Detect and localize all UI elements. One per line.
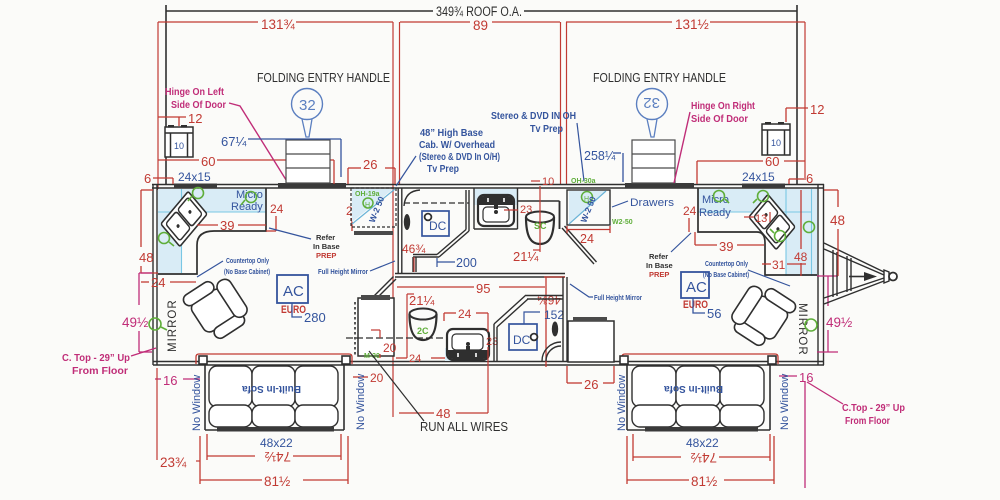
dim 20 upper: [371, 330, 380, 358]
svg-text:46¾: 46¾: [402, 242, 426, 256]
angled mirror panel left: [365, 277, 397, 309]
dim 81 1/2 left: [200, 436, 348, 484]
red extension verticals: [158, 22, 805, 417]
mirror door diagonal right of toilet: [562, 226, 597, 264]
svg-text:From Floor: From Floor: [845, 416, 890, 427]
svg-text:32: 32: [643, 94, 660, 111]
svg-text:C. Top - 29” Up: C. Top - 29” Up: [62, 353, 130, 364]
dim 48 bottom bath: [399, 412, 488, 414]
svg-text:C.Top - 29” Up: C.Top - 29” Up: [842, 403, 905, 414]
mirror text left wall: [167, 299, 179, 352]
outlet left wall lower: [149, 318, 161, 330]
svg-text:RUN ALL WIRES: RUN ALL WIRES: [420, 420, 508, 434]
dim 31 right: [762, 263, 806, 265]
svg-text:16: 16: [163, 373, 177, 388]
svg-text:No Window: No Window: [355, 374, 367, 430]
svg-text:Side Of Door: Side Of Door: [691, 114, 748, 125]
svg-text:Built-In Sofa: Built-In Sofa: [242, 383, 301, 394]
door threshold right: [625, 183, 694, 188]
svg-text:PREP: PREP: [649, 270, 669, 279]
svg-text:12: 12: [810, 102, 824, 117]
sofa left cushions: [209, 366, 338, 427]
svg-text:48: 48: [139, 250, 153, 265]
dim 23 3/4 left: [156, 368, 158, 460]
dim 152 leader: [524, 312, 540, 324]
dim 46 3/4 bottom bath (rotated): [537, 293, 561, 307]
svg-text:24: 24: [458, 307, 472, 321]
hinge leader right: [674, 112, 690, 183]
svg-text:Tv Prep: Tv Prep: [427, 164, 459, 175]
dim 60 right: [697, 161, 805, 184]
svg-text:48: 48: [794, 250, 808, 264]
svg-text:AC: AC: [283, 283, 304, 300]
svg-text:152: 152: [544, 308, 564, 322]
red overall dim line 131 3/4: [158, 21, 805, 23]
bottom bath top wall: [395, 274, 565, 278]
svg-text:95: 95: [476, 281, 490, 296]
dim 200 leader: [436, 258, 438, 267]
dim 24 counter bottom left: [141, 281, 196, 283]
dim 13 right sink: [744, 216, 754, 218]
svg-text:In Base: In Base: [313, 242, 340, 251]
svg-text:No Window: No Window: [616, 375, 628, 431]
svg-text:MIRROR: MIRROR: [167, 299, 179, 352]
mirror text right wall: [796, 303, 808, 356]
svg-text:60: 60: [765, 154, 779, 169]
overhead dashed line top bath: [404, 202, 469, 204]
sofa right slideout: [620, 356, 776, 430]
svg-text:Hinge On Left: Hinge On Left: [165, 87, 225, 98]
hitch coupler: [884, 270, 889, 283]
dim 48 right counter: [800, 190, 802, 276]
dim 20 lower: [353, 376, 368, 378]
no window labels left sofa: [191, 375, 203, 431]
DC room faucet: [552, 322, 558, 337]
svg-text:24x15: 24x15: [178, 170, 211, 184]
svg-text:48: 48: [830, 213, 845, 228]
hitch arrow: [849, 276, 864, 278]
hinge leader left: [229, 103, 288, 183]
svg-text:39: 39: [719, 239, 733, 254]
svg-text:In Base: In Base: [646, 261, 673, 270]
top bath sink counter: [474, 189, 518, 205]
svg-text:(No Base Cabinet): (No Base Cabinet): [703, 270, 749, 279]
svg-text:24: 24: [580, 232, 594, 246]
svg-text:EURO: EURO: [683, 299, 708, 311]
svg-text:49½: 49½: [826, 315, 852, 330]
svg-text:23¾: 23¾: [160, 455, 187, 470]
window 24x15 left: [174, 184, 217, 189]
svg-text:21¼: 21¼: [409, 293, 434, 308]
left kitchen counter edge: [158, 188, 266, 274]
svg-text:131½: 131½: [675, 17, 709, 32]
dim 95: [397, 277, 546, 367]
sofa right cushions: [632, 366, 764, 427]
svg-text:131¾: 131¾: [261, 17, 296, 32]
outlets right wall: [804, 222, 815, 233]
svg-text:31: 31: [772, 258, 786, 272]
left corner sink: [161, 191, 207, 246]
svg-text:Hinge On Right: Hinge On Right: [691, 101, 756, 112]
svg-text:PREP: PREP: [316, 251, 336, 260]
dim 49 1/2 left: [139, 273, 152, 352]
dim 74 1/2 left: [207, 434, 341, 460]
svg-text:48x22: 48x22: [260, 436, 293, 450]
svg-text:(No Base Cabinet): (No Base Cabinet): [224, 267, 270, 276]
toilet SC: [526, 212, 554, 223]
svg-text:48: 48: [436, 406, 450, 421]
left kitchen counter fill: [158, 189, 266, 273]
svg-text:Refer: Refer: [649, 252, 668, 261]
svg-text:258¼: 258¼: [584, 149, 616, 163]
dim 24 bottom bath sink top: [444, 313, 488, 321]
DC closet box top bath: [422, 211, 449, 236]
dim 39 left: [197, 224, 266, 226]
shower faucet top bath: [404, 214, 410, 230]
svg-text:81½: 81½: [691, 474, 717, 489]
trailer hitch a-frame: [824, 243, 884, 304]
svg-text:12: 12: [188, 111, 202, 126]
svg-text:49½: 49½: [122, 315, 148, 330]
built-in sofa label left: [242, 383, 301, 394]
svg-text:H: H: [365, 202, 370, 209]
svg-text:From Floor: From Floor: [72, 366, 128, 377]
no window labels right sofa: [616, 375, 628, 431]
svg-text:Refer: Refer: [316, 233, 335, 242]
svg-text:280: 280: [304, 310, 326, 325]
sofa right slideout red outline: [622, 354, 778, 364]
right kitchen counter edge: [698, 188, 817, 275]
DC closet box bottom: [509, 324, 537, 350]
dim 74 1/2 right: [633, 434, 770, 461]
svg-text:67¼: 67¼: [221, 134, 246, 149]
cabinet 10 left: [165, 127, 193, 157]
svg-text:74½: 74½: [265, 449, 291, 464]
svg-text:81½: 81½: [264, 474, 290, 489]
svg-text:6: 6: [806, 171, 813, 186]
svg-text:Stereo & DVD IN OH: Stereo & DVD IN OH: [491, 111, 576, 122]
svg-text:10: 10: [174, 141, 184, 151]
toilet back wall: [559, 201, 561, 229]
svg-text:56: 56: [707, 306, 721, 321]
dashed overhead line bottom bath: [346, 337, 452, 339]
DC room shower curve: [546, 346, 561, 361]
svg-text:48” High Base: 48” High Base: [420, 128, 483, 139]
svg-text:Cab. W/ Overhead: Cab. W/ Overhead: [419, 140, 495, 151]
svg-text:48x22: 48x22: [686, 436, 719, 450]
svg-text:74½: 74½: [691, 450, 717, 465]
svg-text:Micro: Micro: [236, 189, 263, 201]
entry step right: [632, 140, 675, 183]
DC room walls bottom bath: [494, 295, 563, 361]
svg-text:FOLDING ENTRY HANDLE: FOLDING ENTRY HANDLE: [593, 70, 726, 85]
bottom bath sink cyan pad: [445, 348, 488, 361]
sofa left slideout: [199, 356, 350, 430]
svg-text:20: 20: [383, 341, 397, 355]
door tag circle 32 left: [292, 89, 323, 120]
dim 49 1/2 right: [817, 276, 838, 352]
svg-text:No Window: No Window: [779, 374, 791, 430]
entry step left: [286, 140, 330, 183]
door tag circle 32 right (rotated): [637, 89, 668, 120]
right wall: [818, 184, 824, 365]
svg-text:200: 200: [456, 256, 477, 270]
svg-text:AC: AC: [686, 279, 707, 296]
svg-text:24x15: 24x15: [742, 170, 775, 184]
svg-text:2C: 2C: [417, 326, 429, 336]
center-right dividing wall: [563, 277, 567, 361]
roof O.A. dimension line: [166, 5, 797, 184]
built-in sofa label right: [664, 383, 723, 394]
svg-text:(Stereo & DVD In O/H): (Stereo & DVD In O/H): [419, 152, 500, 163]
dim 23 top bath: [504, 209, 518, 211]
svg-text:21¼: 21¼: [513, 249, 538, 264]
svg-text:Ready: Ready: [699, 207, 731, 219]
svg-text:89: 89: [473, 18, 488, 33]
svg-text:26: 26: [584, 377, 598, 392]
outlets right kitchen: [714, 191, 786, 242]
AC unit right: [681, 272, 709, 298]
svg-text:10: 10: [542, 176, 554, 188]
sofa left slideout red outline: [196, 354, 352, 364]
svg-text:Built-In Sofa: Built-In Sofa: [664, 383, 723, 394]
dim 6 right: [789, 178, 804, 180]
dim 10 top bath: [531, 180, 540, 182]
top bath shower walls: [413, 190, 469, 272]
dim 26 left cab: [348, 168, 395, 184]
svg-text:349¾ ROOF O.A.: 349¾ ROOF O.A.: [436, 4, 522, 19]
svg-text:24: 24: [151, 275, 165, 290]
bottom wall: [153, 362, 824, 366]
svg-text:Side Of Door: Side Of Door: [171, 100, 226, 111]
svg-text:Ready: Ready: [231, 201, 263, 213]
svg-text:16: 16: [799, 370, 813, 385]
svg-text:Countertop Only: Countertop Only: [226, 256, 270, 265]
svg-text:Drawers: Drawers: [630, 197, 675, 209]
bottom bath sink: [447, 329, 489, 360]
dim 12 right: [786, 107, 808, 109]
right living drawers cabinet: [568, 321, 614, 362]
svg-text:Tv Prep: Tv Prep: [530, 124, 563, 135]
toilet 2C: [410, 309, 437, 320]
dim 24 under bottom sink: [396, 357, 446, 359]
left wall: [153, 184, 157, 365]
svg-text:Full Height Mirror: Full Height Mirror: [594, 293, 642, 302]
M-30 cabinet: [358, 298, 394, 356]
armchair left: [181, 271, 253, 345]
svg-text:23: 23: [520, 204, 532, 216]
svg-text:FOLDING ENTRY HANDLE: FOLDING ENTRY HANDLE: [257, 70, 390, 85]
dim 16 right: [779, 375, 797, 377]
cabinet 10 right: [762, 124, 790, 155]
top wall: [152, 185, 824, 189]
dim 60 left: [158, 160, 334, 184]
svg-text:Full Height Mirror: Full Height Mirror: [318, 267, 368, 276]
wardrobe cabinet left: [352, 189, 393, 222]
dim 16 left: [155, 378, 200, 380]
svg-text:39: 39: [220, 218, 234, 233]
svg-text:13: 13: [755, 213, 767, 225]
svg-text:DC: DC: [429, 219, 447, 233]
c-top note right: [804, 381, 806, 488]
dim 24 under right wardrobe: [567, 226, 610, 233]
dim 26 right living: [567, 366, 614, 383]
wardrobe cabinet right (drawers): [569, 191, 605, 223]
top bath sink: [478, 195, 514, 226]
svg-text:24: 24: [683, 204, 697, 218]
svg-text:26: 26: [363, 157, 377, 172]
svg-text:EURO: EURO: [281, 304, 306, 316]
dim 81 1/2 right: [627, 436, 774, 484]
svg-text:24: 24: [270, 202, 284, 216]
outlets left kitchen: [159, 188, 257, 247]
svg-text:10: 10: [771, 138, 781, 148]
svg-text:20: 20: [370, 371, 384, 385]
svg-text:OH-30a: OH-30a: [571, 178, 596, 185]
armchair right: [725, 278, 797, 352]
svg-text:W2-50: W2-50: [612, 219, 633, 226]
dim 12 left: [158, 116, 186, 118]
dim 21 1/4 top bath: [533, 186, 540, 252]
svg-text:24: 24: [409, 353, 421, 365]
dim 48 left wall: [141, 190, 158, 273]
svg-text:60: 60: [201, 154, 215, 169]
shower pan corner: [404, 190, 420, 206]
svg-text:32: 32: [299, 97, 316, 114]
svg-text:No Window: No Window: [191, 375, 203, 431]
dim 48 hitch: [824, 190, 838, 276]
window 24x15 right: [742, 184, 785, 189]
right kitchen counter fill: [698, 189, 817, 276]
right corner sink: [749, 194, 795, 249]
dim 6 left: [153, 177, 173, 179]
svg-text:6: 6: [144, 171, 151, 186]
dim 21 1/4 bottom bath: [407, 294, 414, 358]
AC unit left: [277, 275, 308, 303]
dim 39 right: [695, 232, 764, 245]
top bath left wall: [398, 188, 402, 273]
svg-text:Countertop Only: Countertop Only: [705, 259, 749, 268]
door threshold left: [278, 183, 346, 188]
svg-text:DC: DC: [513, 333, 531, 347]
